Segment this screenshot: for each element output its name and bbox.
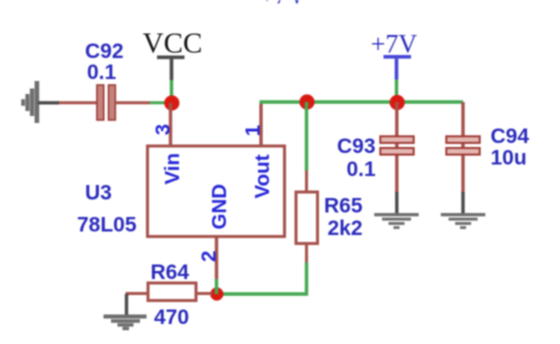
capacitor C94 <box>446 136 479 154</box>
svg-text:+7V: +7V <box>260 0 307 10</box>
supply +7V symbol <box>371 30 418 80</box>
svg-text:R65: R65 <box>324 195 363 218</box>
wire R65 bottom lead <box>305 244 308 263</box>
capacitor C92 <box>97 85 115 120</box>
node junction C93 top <box>390 95 405 110</box>
svg-text:C92: C92 <box>85 40 124 63</box>
svg-text:0.1: 0.1 <box>87 61 117 84</box>
wire green top run <box>260 100 464 103</box>
wire ground stem to C92 <box>38 101 59 104</box>
svg-text:C93: C93 <box>337 135 376 158</box>
wire +7V to junction <box>395 80 398 103</box>
supply VCC symbol <box>143 28 203 81</box>
wire stem to ground <box>461 192 464 215</box>
svg-text:0.1: 0.1 <box>347 158 377 181</box>
svg-text:3: 3 <box>152 124 175 135</box>
node junction R65 top <box>299 94 314 109</box>
svg-text:2: 2 <box>198 251 221 262</box>
wire C94 lead <box>461 102 464 193</box>
wire R65 top lead <box>305 171 308 193</box>
svg-text:78L05: 78L05 <box>77 214 137 237</box>
svg-text:GND: GND <box>208 184 231 230</box>
wire VCC to junction <box>170 80 173 102</box>
IC U3 body (78L05 regulator) <box>148 146 285 237</box>
svg-text:470: 470 <box>154 306 189 329</box>
svg-text:1: 1 <box>242 125 265 136</box>
svg-text:10u: 10u <box>491 147 527 170</box>
wire C93 lead <box>395 102 398 193</box>
ground GND3 (below C93) <box>374 213 419 229</box>
wire stem to ground <box>125 294 128 315</box>
wire stem to ground <box>395 192 398 215</box>
svg-text:2k2: 2k2 <box>328 217 363 240</box>
svg-text:Vin: Vin <box>161 153 184 185</box>
wire green pin2 to junction <box>215 279 218 294</box>
svg-text:Vout: Vout <box>251 154 274 198</box>
wire R64 right lead <box>196 292 212 295</box>
svg-text:+7V: +7V <box>371 30 418 59</box>
svg-text:C94: C94 <box>491 125 530 148</box>
capacitor C93 <box>380 136 413 154</box>
ground GND1 (left, rotated earth ground) <box>21 81 39 123</box>
svg-text:U3: U3 <box>85 182 112 205</box>
ground GND4 (below C94) <box>441 213 486 229</box>
wire C92 right lead <box>115 101 150 104</box>
wire C92 left lead <box>59 101 97 104</box>
ground GND2 (below R64) <box>104 315 147 331</box>
svg-text:R64: R64 <box>151 261 190 284</box>
node junction GND net <box>210 287 223 300</box>
wire pin 1 (Vout) <box>259 104 262 147</box>
wire green to VCC junction <box>150 101 172 104</box>
wire pin 3 (Vin) <box>169 103 172 146</box>
wire R64 left lead <box>127 294 148 297</box>
wire green R65 to GND net <box>223 263 307 295</box>
wire pin 2 (GND) <box>215 237 218 280</box>
resistor R64 <box>148 283 196 301</box>
resistor R65 <box>296 192 318 244</box>
wire green down from junction <box>305 102 308 171</box>
node VCC junction <box>164 95 179 110</box>
svg-text:VCC: VCC <box>143 28 203 60</box>
